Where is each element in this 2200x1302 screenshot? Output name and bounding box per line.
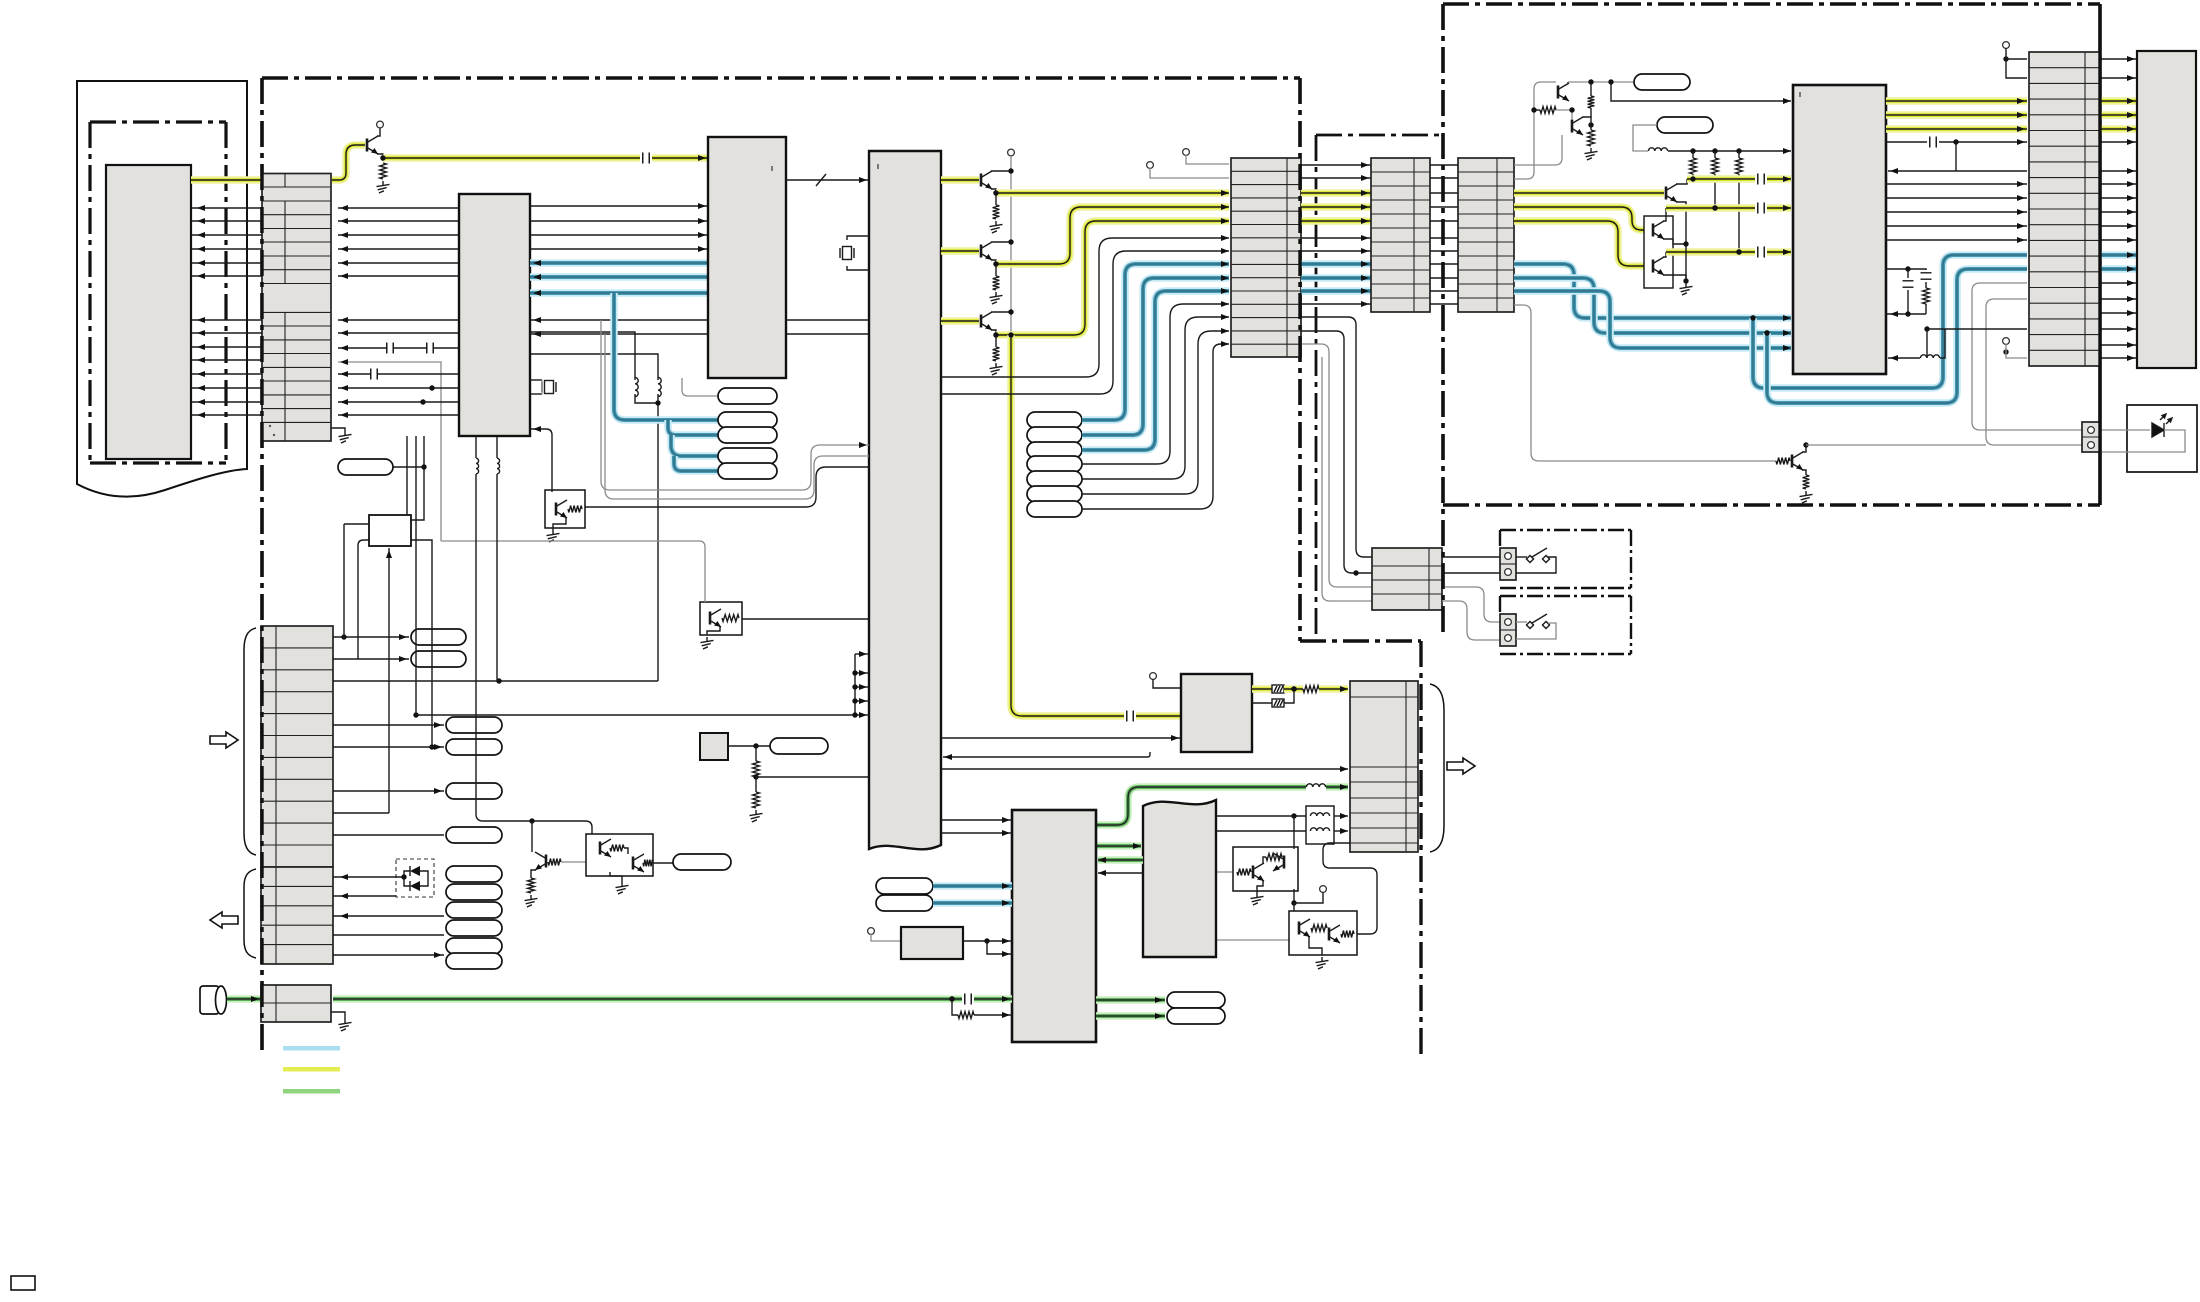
wire arrow [1340,686,1348,692]
wire [1430,220,1458,222]
terminal Q1 collector [377,121,384,128]
wire arrow [1002,830,1010,836]
test point TP-G [1634,74,1690,90]
test point TP-U [446,953,502,969]
wire arrow [1340,828,1348,834]
wire arrow [340,371,348,377]
connector SW2 pins [1500,614,1516,646]
wire [610,872,622,882]
wire gray [605,334,869,499]
wire [530,393,542,395]
wire arrow [2127,168,2135,174]
wire green mic [333,995,962,1003]
connector CN5 [1372,548,1442,610]
legend line green [283,1089,340,1094]
wire arrow [2127,252,2135,258]
resistor R10 [1690,158,1697,174]
right board dash-dot border top [1443,2,2100,5]
main board dash-dot border right [1298,78,1301,641]
wire yellow Q4 out [996,221,1229,335]
wire arrow [2127,280,2135,286]
wire [2006,58,2027,60]
wire blue [2100,265,2137,273]
wire arrow [1890,168,1898,174]
main board border overlay left [260,78,263,1052]
right board border overlay right [2098,4,2101,505]
junction [1291,900,1296,905]
wire [653,862,673,864]
resistor R12 [1736,158,1743,174]
junction [1291,813,1296,818]
wire [191,319,262,321]
wire [1886,225,2027,227]
wire arrow [2017,181,2025,187]
inner section dash-dot border top [1316,134,1443,137]
wire yellow [2100,97,2137,105]
terminal Q2 rail [1008,149,1015,156]
IC B12 vol [369,515,411,546]
test point TP-M [411,629,466,645]
wire blue [530,259,708,267]
wire blue [1301,287,1371,295]
wire [755,777,757,792]
wire [635,394,658,403]
wire arrow [2127,342,2135,348]
legend line yellow [283,1067,340,1072]
wire arrow [434,788,442,794]
wire arrow [1221,235,1229,241]
wire arrow [2017,195,2025,201]
wire [1516,621,1527,623]
wire arrow [2127,98,2135,104]
test point TP-S4 [1027,456,1082,472]
wire [657,394,659,681]
wire [756,776,869,778]
wire [530,220,708,222]
test point TP-C [718,427,777,443]
wire arrow [1340,813,1348,819]
wire [393,466,424,468]
wire B2 to DT1 [530,429,552,492]
resistor R19 base [548,859,561,866]
wire arrow [2017,237,2025,243]
resistor R13 [1776,458,1790,465]
resistor R1 [380,163,387,179]
wire arrow [1783,98,1791,104]
wire arrow [1221,204,1229,210]
wire arrow [340,218,348,224]
ground G11 [1800,491,1813,503]
wire arrow [1361,288,1369,294]
wire arrow [2127,296,2135,302]
wire yellow [2100,125,2137,133]
test point TP-I [876,878,933,894]
wire gray [2006,344,2027,358]
wire arrow [340,874,348,880]
test point TP-N [411,651,466,667]
wire [333,724,444,726]
transistor pair box QP1 [1644,216,1673,288]
wire [338,234,459,236]
connector SW1 pins [1500,548,1516,580]
wire arrow [197,371,205,377]
junction [1683,241,1688,246]
wire [343,524,345,637]
wire [941,768,1348,770]
wire [995,193,997,205]
wire [1663,252,1666,257]
wire [1590,117,1592,130]
wire [333,746,444,748]
wire [1153,679,1181,688]
ground G4 [701,637,714,649]
connector CN1 pin dots [269,425,275,436]
wire yellow vertical long [1011,335,1124,716]
wire arrow [698,246,706,252]
resistor R18 [528,878,535,893]
hatched resistor HR2 [1272,699,1284,707]
IC B2 servo processor [459,194,530,436]
wire gray [1442,587,1500,622]
wire arrow [399,656,407,662]
wire [1252,702,1272,704]
junction [429,385,434,390]
wire [191,207,262,209]
wire B9 bottom to B4 [943,752,1150,757]
wire [344,523,369,525]
wire [191,220,262,222]
wire [1714,174,1716,208]
wire [338,207,459,209]
wire [974,1014,1012,1016]
capacitor C8 [1930,137,1936,148]
wire [497,680,499,682]
ground G16 [339,1019,352,1031]
wire gray [1216,939,1289,941]
wire arrow [2017,98,2025,104]
wire [191,248,262,250]
wire [2100,77,2137,79]
wire [2100,430,2185,452]
wire [530,332,635,380]
wire blue [668,420,718,435]
junction [1353,570,1358,575]
resistor R5 [993,276,1000,290]
wire [995,264,997,276]
wire yellow [1301,189,1371,197]
wire [1301,331,1372,573]
test point TP-R [446,827,502,843]
wire arrow [1002,900,1010,906]
wire [847,236,869,240]
wire [1301,237,1371,239]
wire [191,387,262,389]
connector CN8 [261,985,331,1022]
wire arrow [533,290,541,296]
wire [847,266,869,270]
wire arrow [2017,139,2025,145]
wire B2 to audio mute rail [476,474,592,834]
wire blue [1301,274,1371,282]
pin mark B3 [771,166,773,171]
wire Q9 collector [531,821,533,852]
legend line blue [283,1046,340,1051]
wire green [1326,783,1348,791]
connector CN6 [1350,681,1418,852]
wire arrow [1361,218,1369,224]
resistor R4 [993,205,1000,219]
wire arrow [1783,176,1791,182]
wire yellow C1 to B3 [652,154,708,162]
wire [1926,329,1928,358]
terminal [1183,149,1190,156]
wire [530,234,708,236]
wire arrow [1340,766,1348,772]
wire [987,941,1012,954]
wire [333,834,444,836]
capacitor C1 [643,153,649,164]
brace CN7a [244,628,256,855]
capacitor C2 [371,369,377,380]
inductor L3 [1648,148,1667,151]
wire blue [1082,291,1229,450]
wire arrow [533,274,541,280]
wire [728,745,770,747]
wire arrow [1002,996,1010,1002]
junction [1531,107,1536,112]
wire [2100,211,2137,213]
wire arrow [1221,328,1229,334]
wire arrow [2017,223,2025,229]
junction [1008,168,1013,173]
wire arrow [2127,56,2135,62]
wire arrow [340,913,348,919]
junction [1736,148,1741,153]
wire [1309,937,1322,955]
wire arrow [197,260,205,266]
wire arrow [1783,249,1791,255]
wire [191,275,262,277]
brace CN7b [244,869,256,958]
ground G15 [616,882,629,894]
wire arrow [1361,301,1369,307]
wire gray [1150,168,1229,178]
wire [1886,197,2027,199]
junction [1736,249,1741,254]
junction [655,400,660,405]
wire yellow [1319,685,1348,693]
wire [1430,164,1458,166]
wire [1925,304,1927,314]
wire [1301,177,1371,179]
wire [1430,206,1458,208]
wire [530,379,542,381]
wire [2100,58,2137,60]
wire arrow [1361,235,1369,241]
wire [1516,623,1556,639]
junction [429,744,434,749]
wire [191,346,262,348]
wire arrow [340,232,348,238]
terminal [2088,427,2095,434]
test point TP-P1 [338,459,393,475]
wire [1082,344,1229,509]
wire green [974,995,1012,1003]
terminal [1505,569,1512,576]
wire [1284,689,1294,703]
IC B1 display module [106,165,191,459]
wire [1738,151,1740,158]
wire arrow [533,317,541,323]
junction [1712,148,1717,153]
junction [852,712,857,717]
wire arrow [1361,204,1369,210]
transistor Q5b [1572,117,1583,135]
wire arrow [1783,345,1791,351]
wire arrow [859,684,867,690]
wire [2100,282,2137,284]
wire blue [614,293,718,420]
wire [2100,141,2137,143]
transistor Q9 [535,852,546,870]
wire yellow CN3 row5 [1514,221,1651,266]
wire yellow [1767,248,1791,256]
inductor L1 [635,377,638,396]
wire yellow CN3 row4 [1514,207,1651,230]
wire [531,870,536,878]
wire [338,387,459,389]
capacitor C12 [965,994,971,1005]
IC B3 RF amp [708,137,786,378]
wire arrow [1098,870,1106,876]
wire arrow [1340,784,1348,790]
wire [855,653,869,655]
wire arrow [1221,301,1229,307]
ground G6 [990,221,1003,233]
wire arrow [340,345,348,351]
wire arrow [2127,126,2135,132]
wire yellow Q1 to C1 [383,154,640,162]
wire [2006,48,2027,78]
wire arrow [197,273,205,279]
IC B5 system control [1793,85,1886,374]
wire [2100,429,2150,431]
wire [1516,557,1556,573]
terminal [2088,442,2095,449]
wire arrow [1155,1013,1163,1019]
wire [496,436,498,458]
test point TP-S6 [1027,486,1082,502]
wire [331,428,345,431]
wire arrow [1361,175,1369,181]
wire gray [1186,155,1229,164]
junction [401,874,406,879]
wire arrow [944,754,952,760]
junction [1588,79,1593,84]
test point TP-D [718,448,777,464]
IC B7 audio amp [1012,810,1096,1042]
junction [1608,79,1613,84]
transistor Q3 [981,242,1011,264]
wire arrow [698,218,706,224]
wire arrow [1783,205,1791,211]
wire [338,248,459,250]
wire bus feed [416,714,855,716]
wire [496,474,498,681]
inductor L4 [1920,355,1939,358]
inductor L8 [476,458,479,474]
inductor L2 [658,377,661,396]
block arrow A3 [1447,758,1475,774]
wire arrow [2017,126,2025,132]
wire blue [2100,251,2137,259]
wire blue [671,435,718,456]
test point stack TP-T3 [446,902,502,918]
IC B11 regulator [700,733,728,760]
junction [753,743,758,748]
wire arrow [197,205,205,211]
wire arrow [859,712,867,718]
capacitor C11 [1127,711,1133,722]
wire blue drop1 [1753,255,2027,388]
switch S2 frame [1500,596,1631,654]
wire [855,672,869,674]
wire [191,332,262,334]
test point TP-S7 [1027,501,1082,517]
wire [475,436,477,458]
junction [2003,349,2008,354]
wire [1082,317,1229,479]
wire arrow [1890,355,1898,361]
wire gray long [441,541,705,602]
wire [1955,142,1957,171]
wire [2100,312,2137,314]
capacitor C6y [1758,203,1764,214]
wire [2100,239,2137,241]
test point TP-H [1657,117,1713,133]
wire yellow [1301,203,1371,211]
main board dash-dot border bottom step [1300,639,1421,642]
wire gray [1216,871,1233,873]
crystal X1 [542,381,556,394]
wire [963,940,1012,942]
wire [191,373,262,375]
capacitor C7y [1758,247,1764,258]
wire arrow [340,260,348,266]
wire [1430,290,1458,292]
wire yellow [1767,175,1791,183]
wire [1676,179,1687,184]
main board dash-dot border top [262,76,1300,79]
wire arrow [197,344,205,350]
wire bus vertical [854,654,856,715]
wire yellow [1886,111,2027,119]
junction [420,399,425,404]
wire [941,832,1012,834]
ground G5 [750,810,763,822]
wire [1908,269,1926,270]
wire arrow [1361,190,1369,196]
test point TP-O [446,717,502,733]
wire gray [1514,305,1776,461]
wire yellow out1 [1666,204,1755,212]
junction [1008,239,1013,244]
wire gray [561,861,586,863]
junction [1750,315,1755,320]
wire [530,248,708,250]
wire [1534,109,1540,111]
wire [530,354,658,380]
